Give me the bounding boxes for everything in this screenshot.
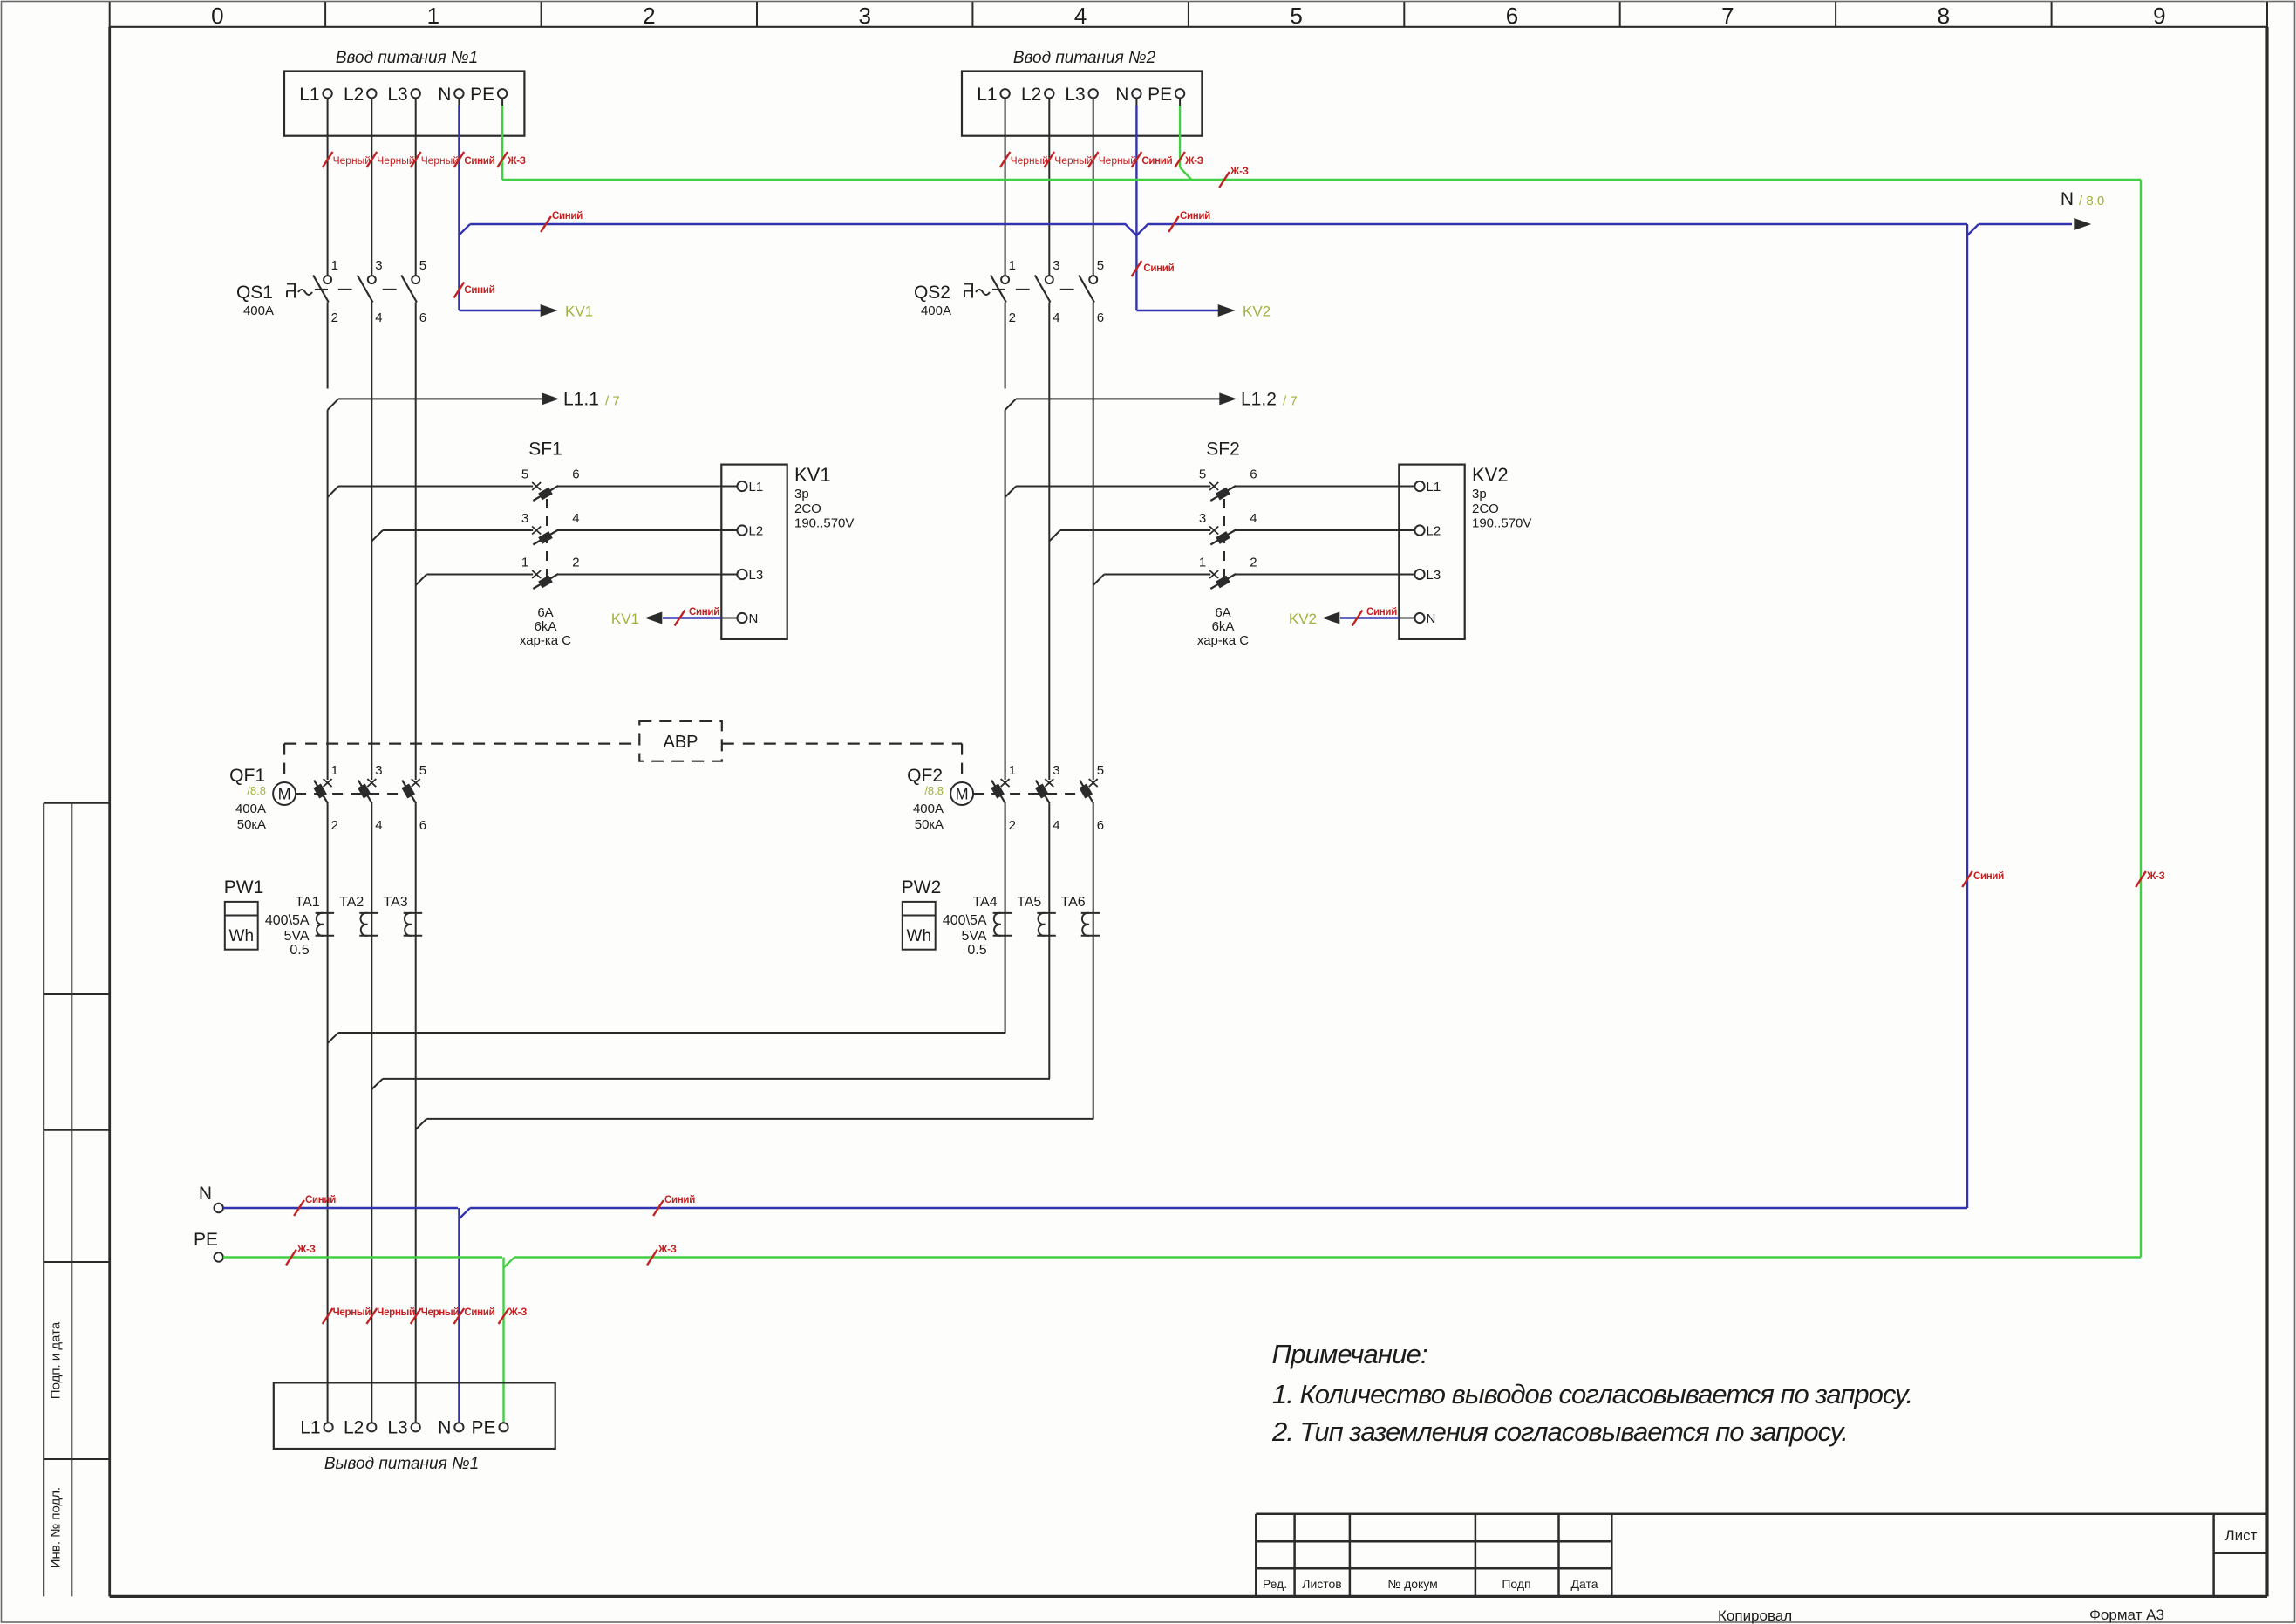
- svg-text:6: 6: [572, 467, 579, 482]
- svg-text:5: 5: [419, 258, 426, 273]
- motorized circuit breaker QF1 400A 50kA: [229, 763, 426, 833]
- svg-text:3p: 3p: [794, 487, 809, 502]
- svg-text:/ 7: / 7: [1283, 394, 1298, 409]
- svg-text:Черный: Черный: [1099, 154, 1136, 167]
- svg-text:N: N: [438, 85, 451, 105]
- svg-text:TA5: TA5: [1017, 895, 1041, 910]
- SF1 pole (pins 3/4) with feed wire from phase: [371, 511, 737, 545]
- QF2 pole 1 (pins 1/2): [991, 763, 1016, 833]
- svg-text:6: 6: [419, 818, 426, 833]
- circuit breaker SF1 6A 6kA: [328, 440, 738, 649]
- svg-text:1: 1: [1009, 763, 1016, 778]
- svg-text:Вывод питания №1: Вывод питания №1: [324, 1455, 479, 1473]
- SF2 pole (pins 3/4) with feed wire from phase: [1049, 511, 1414, 545]
- svg-text:400\5A: 400\5A: [943, 913, 987, 928]
- svg-text:3: 3: [1053, 763, 1059, 778]
- current transformer TA5: [1017, 895, 1056, 936]
- QF2 motor drive M: [950, 782, 973, 805]
- svg-text:TA2: TA2: [339, 895, 364, 910]
- svg-text:Ж-З: Ж-З: [1230, 167, 1249, 177]
- svg-text:QF1: QF1: [229, 766, 265, 786]
- bus L2 crossover (QF2 pole2 to output L2): [371, 803, 1050, 1089]
- wire phase L3 vertical (QS to QF), column 2: [1093, 303, 1094, 781]
- svg-text:Ж-З: Ж-З: [1184, 156, 1203, 167]
- svg-text:1: 1: [331, 258, 338, 273]
- svg-text:QS2: QS2: [914, 283, 950, 303]
- svg-text:3: 3: [858, 3, 870, 29]
- svg-text:Черный: Черный: [1011, 154, 1048, 167]
- SF2 pole (pins 1/2) with feed wire from phase: [1093, 556, 1415, 590]
- ATS controller АВР (dashed): [284, 721, 962, 761]
- svg-text:Синий: Синий: [464, 156, 494, 167]
- net arrow L1.1 / 7: [328, 390, 620, 411]
- svg-text:0.5: 0.5: [290, 943, 309, 958]
- svg-text:PW2: PW2: [902, 877, 942, 897]
- svg-text:QF2: QF2: [907, 766, 943, 786]
- svg-text:PE: PE: [194, 1230, 218, 1250]
- svg-text:Примечание:: Примечание:: [1272, 1339, 1428, 1369]
- right N riser (blue): [1966, 224, 1968, 1208]
- svg-text:6: 6: [1097, 818, 1104, 833]
- svg-text:PW1: PW1: [224, 877, 264, 897]
- wire PE input1 drop (green): [497, 99, 526, 181]
- svg-text:190..570V: 190..570V: [1472, 516, 1531, 531]
- terminal N (bottom left): [199, 1184, 223, 1212]
- svg-text:Черный: Черный: [377, 154, 414, 167]
- svg-text:2: 2: [331, 310, 338, 325]
- svg-text:5: 5: [419, 763, 426, 778]
- current transformer TA3: [384, 895, 423, 936]
- svg-text:Синий: Синий: [1366, 607, 1397, 618]
- svg-text:3p: 3p: [1472, 487, 1487, 502]
- svg-text:2CO: 2CO: [794, 502, 821, 516]
- svg-text:№ докум: № докум: [1387, 1577, 1438, 1591]
- svg-text:/8.8: /8.8: [247, 784, 266, 797]
- svg-text:N: N: [1115, 85, 1128, 105]
- wire phase L2 from input 2 to QS2: [1045, 99, 1093, 276]
- N bus horizontal (blue) with V-junction at N2: [470, 211, 1967, 235]
- wire phase L3 from input 1 to QS1: [411, 99, 459, 276]
- svg-text:Ж-З: Ж-З: [2146, 871, 2165, 882]
- svg-text:4: 4: [375, 818, 382, 833]
- svg-text:Синий: Синий: [1143, 263, 1174, 274]
- bottom PE bus (green): [223, 1245, 2141, 1268]
- svg-text:L1: L1: [300, 1417, 320, 1437]
- svg-text:L2: L2: [1427, 524, 1441, 539]
- wire N input1 drop (blue): [454, 99, 495, 235]
- dashed link АВР to QF2 drive: [961, 744, 963, 782]
- svg-text:5VA: 5VA: [284, 929, 310, 944]
- current transformer TA4: [972, 895, 1012, 936]
- svg-text:Ввод питания №1: Ввод питания №1: [336, 49, 478, 67]
- svg-text:Черный: Черный: [333, 1307, 371, 1318]
- svg-text:KV2: KV2: [1243, 304, 1271, 320]
- QS2 pole 3 (pins 5/6): [1079, 258, 1104, 325]
- terminal block: Вывод питания №1: [274, 1382, 555, 1473]
- wire phase L2 vertical (QS to QF), column 2: [1048, 303, 1050, 781]
- energy meter PW2 (Wh): [902, 877, 942, 950]
- svg-text:1: 1: [331, 763, 338, 778]
- svg-text:АВР: АВР: [663, 733, 698, 752]
- voltage relay KV1 3p 2CO 190..570V: [721, 464, 854, 639]
- QS1 pole 1 (pins 1/2): [313, 258, 338, 325]
- svg-text:0.5: 0.5: [967, 943, 986, 958]
- svg-text:N: N: [1427, 611, 1436, 626]
- svg-text:Формат А3: Формат А3: [2089, 1607, 2164, 1623]
- QF1 pole 1 (pins 1/2): [314, 763, 338, 833]
- svg-text:190..570V: 190..570V: [794, 516, 854, 531]
- QS1 pole 2 (pins 3/4): [358, 258, 383, 325]
- QF1 motor drive M: [273, 782, 296, 805]
- svg-text:2: 2: [331, 818, 338, 833]
- wire phase L3 from input 2 to QS2: [1088, 99, 1136, 276]
- svg-text:L3: L3: [387, 1417, 407, 1437]
- voltage relay KV2 3p 2CO 190..570V: [1399, 464, 1531, 639]
- svg-text:Инв. № подл.: Инв. № подл.: [49, 1487, 64, 1568]
- svg-text:Синий: Синий: [305, 1195, 336, 1205]
- svg-text:M: M: [278, 786, 291, 803]
- svg-text:Синий: Синий: [689, 607, 719, 618]
- svg-text:Синий: Синий: [1973, 871, 2004, 882]
- svg-text:SF1: SF1: [528, 440, 562, 460]
- svg-text:KV2: KV2: [1289, 611, 1317, 627]
- circuit breaker SF2 6A 6kA: [1005, 440, 1415, 649]
- svg-text:2CO: 2CO: [1472, 502, 1499, 516]
- right PE riser (green): [2140, 180, 2142, 1258]
- svg-text:1: 1: [427, 3, 439, 29]
- svg-text:3: 3: [521, 511, 528, 526]
- terminal PE (bottom left): [194, 1230, 223, 1262]
- svg-text:M: M: [956, 786, 969, 803]
- svg-text:Подп: Подп: [1502, 1577, 1530, 1591]
- svg-text:KV1: KV1: [611, 611, 639, 627]
- svg-text:Лист: Лист: [2225, 1527, 2258, 1544]
- colour tag Ж-З on right PE riser: [2136, 871, 2164, 887]
- svg-text:хар-ка С: хар-ка С: [520, 633, 571, 648]
- svg-text:0: 0: [211, 3, 223, 29]
- svg-text:L1: L1: [1427, 480, 1441, 495]
- svg-text:3: 3: [375, 258, 382, 273]
- svg-text:400A: 400A: [921, 304, 951, 318]
- svg-text:Черный: Черный: [421, 154, 459, 167]
- svg-text:50кА: 50кА: [915, 817, 944, 832]
- svg-text:/ 7: / 7: [605, 394, 620, 409]
- svg-text:Синий: Синий: [1141, 156, 1172, 167]
- wire PE input2 drop (green) with jog: [1175, 99, 1203, 181]
- svg-text:9: 9: [2153, 3, 2165, 29]
- svg-text:Синий: Синий: [464, 285, 494, 296]
- svg-text:400\5A: 400\5A: [265, 913, 310, 928]
- terminal block: Ввод питания №1: [284, 49, 524, 136]
- svg-text:L2: L2: [749, 524, 764, 539]
- svg-text:1: 1: [1199, 556, 1206, 570]
- current transformer TA2: [339, 895, 378, 936]
- svg-text:6kА: 6kА: [535, 619, 557, 634]
- svg-text:50кА: 50кА: [237, 817, 266, 832]
- svg-text:/ 8.0: / 8.0: [2079, 194, 2104, 208]
- svg-text:2: 2: [1009, 310, 1016, 325]
- svg-text:2: 2: [1250, 556, 1257, 570]
- svg-text:5: 5: [1199, 467, 1206, 482]
- energy meter PW1 (Wh): [224, 877, 264, 950]
- svg-text:Ж-З: Ж-З: [657, 1245, 677, 1255]
- svg-text:Листов: Листов: [1302, 1577, 1342, 1591]
- svg-text:4: 4: [375, 310, 382, 325]
- svg-text:1: 1: [1009, 258, 1016, 273]
- svg-text:N: N: [749, 611, 759, 626]
- svg-text:Ввод питания №2: Ввод питания №2: [1013, 49, 1156, 67]
- wire phase L2 from input 1 to QS1: [366, 99, 414, 276]
- bus L1 crossover (QF2 pole1 to output L1): [328, 803, 1006, 1043]
- disconnect switch QS1 400A: [236, 258, 426, 325]
- svg-text:L2: L2: [344, 1417, 364, 1437]
- colour tag Синий on right N riser: [1962, 871, 2004, 887]
- wire N input2 drop (blue): [1132, 99, 1175, 311]
- svg-text:4: 4: [1053, 310, 1059, 325]
- net arrow N / 8.0: [1967, 189, 2104, 235]
- svg-text:3: 3: [375, 763, 382, 778]
- svg-text:PE: PE: [471, 1417, 495, 1437]
- svg-text:L3: L3: [749, 568, 764, 583]
- SF1 pole (pins 1/2) with feed wire from phase: [416, 556, 738, 590]
- wire phase L1 from input 2 to QS2: [1000, 99, 1048, 276]
- notes text Примечание: [1271, 1339, 1912, 1447]
- wire N drop to output block (blue): [454, 1208, 495, 1423]
- svg-text:2. Тип заземления согласовывае: 2. Тип заземления согласовывается по зап…: [1271, 1416, 1848, 1447]
- svg-text:5: 5: [1290, 3, 1302, 29]
- svg-text:Wh: Wh: [907, 927, 932, 945]
- QF2 pole 3 (pins 5/6): [1080, 763, 1104, 833]
- svg-text:1: 1: [521, 556, 528, 570]
- svg-text:6А: 6А: [537, 605, 553, 620]
- wire phase L2 vertical (QS to QF), column 1: [371, 303, 372, 781]
- svg-text:Wh: Wh: [229, 927, 255, 945]
- svg-text:Ж-З: Ж-З: [508, 1307, 528, 1318]
- svg-text:2: 2: [1009, 818, 1016, 833]
- TA4..TA6 ratings 400\5A 5VA 0.5: [943, 913, 987, 958]
- svg-text:QS1: QS1: [236, 283, 273, 303]
- svg-text:2: 2: [572, 556, 579, 570]
- SF1 pole (pins 5/6) with feed wire from phase: [328, 467, 738, 502]
- svg-text:5: 5: [1097, 258, 1104, 273]
- svg-text:5: 5: [1097, 763, 1104, 778]
- dashed link АВР to QF1 drive: [283, 744, 285, 782]
- svg-text:6kА: 6kА: [1212, 619, 1235, 634]
- wire phase L2 vertical (QF1 to output block): [366, 803, 415, 1423]
- svg-text:L2: L2: [344, 85, 364, 105]
- svg-text:TA1: TA1: [295, 895, 319, 910]
- QF1 pole 3 (pins 5/6): [402, 763, 426, 833]
- svg-text:Синий: Синий: [464, 1307, 494, 1318]
- svg-text:3: 3: [1053, 258, 1059, 273]
- svg-text:5: 5: [521, 467, 528, 482]
- svg-text:TA4: TA4: [972, 895, 997, 910]
- svg-text:1. Количество выводов согласов: 1. Количество выводов согласовывается по…: [1272, 1379, 1912, 1409]
- svg-text:6: 6: [1250, 467, 1257, 482]
- terminal block: Ввод питания №2: [962, 49, 1202, 136]
- svg-text:N: N: [2061, 189, 2074, 209]
- wire N2 to KV2 arrow: [1136, 304, 1271, 320]
- svg-text:L3: L3: [1427, 568, 1441, 583]
- wire N1 vertical to KV1 arrow: [454, 235, 594, 320]
- wire phase L1 vertical (QS to QF), column 1: [327, 303, 329, 781]
- svg-text:Черный: Черный: [1054, 154, 1092, 167]
- svg-text:L3: L3: [387, 85, 407, 105]
- svg-text:L1.2: L1.2: [1241, 390, 1277, 410]
- QS2 pole 1 (pins 1/2): [991, 258, 1016, 325]
- svg-text:TA3: TA3: [384, 895, 408, 910]
- svg-text:7: 7: [1721, 3, 1734, 29]
- junction N1 to N bus (jog): [459, 224, 470, 235]
- QS1 pole 3 (pins 5/6): [401, 258, 426, 325]
- svg-text:6: 6: [1097, 310, 1104, 325]
- svg-text:KV2: KV2: [1472, 464, 1509, 486]
- svg-text:3: 3: [1199, 511, 1206, 526]
- wire phase L3 vertical (QF1 to output block): [411, 803, 460, 1423]
- TA1..TA3 ratings 400\5A 5VA 0.5: [265, 913, 310, 958]
- SF2 pole (pins 5/6) with feed wire from phase: [1005, 467, 1415, 502]
- svg-text:400A: 400A: [235, 802, 266, 816]
- svg-text:L3: L3: [1065, 85, 1085, 105]
- svg-text:SF2: SF2: [1206, 440, 1240, 460]
- bottom N bus (blue): [223, 1195, 1967, 1219]
- wire PE drop to output block (green): [499, 1258, 528, 1423]
- net arrow L1.2 / 7: [1005, 390, 1298, 411]
- svg-text:4: 4: [1250, 511, 1257, 526]
- wire phase L3 vertical (QS to QF), column 1: [415, 303, 417, 781]
- svg-text:6: 6: [1506, 3, 1518, 29]
- QF1 pole 2 (pins 3/4): [358, 763, 383, 833]
- svg-text:4: 4: [1074, 3, 1087, 29]
- svg-text:PE: PE: [470, 85, 494, 105]
- svg-text:Черный: Черный: [377, 1307, 415, 1318]
- svg-text:2: 2: [643, 3, 655, 29]
- svg-text:400A: 400A: [913, 802, 944, 816]
- wire N (blue) from KV2 to net arrow KV2: [1289, 607, 1399, 627]
- svg-text:KV1: KV1: [565, 304, 593, 320]
- svg-text:Ж-З: Ж-З: [507, 156, 526, 167]
- bus L3 crossover (QF2 pole3 to output L3): [416, 803, 1094, 1129]
- disconnect switch QS2 400A: [914, 258, 1104, 325]
- QS2 pole 2 (pins 3/4): [1035, 258, 1060, 325]
- svg-text:PE: PE: [1148, 85, 1172, 105]
- svg-text:Копировал: Копировал: [1718, 1607, 1792, 1624]
- svg-text:KV1: KV1: [794, 464, 831, 486]
- svg-text:400A: 400A: [243, 304, 274, 318]
- svg-text:4: 4: [1053, 818, 1059, 833]
- svg-text:Синий: Синий: [664, 1195, 695, 1205]
- svg-text:L1: L1: [749, 480, 764, 495]
- svg-text:L2: L2: [1021, 85, 1041, 105]
- svg-text:L1.1: L1.1: [563, 390, 599, 410]
- svg-text:Черный: Черный: [421, 1307, 460, 1318]
- svg-text:L1: L1: [299, 85, 319, 105]
- svg-text:Синий: Синий: [552, 211, 583, 222]
- svg-text:L1: L1: [977, 85, 997, 105]
- svg-text:/8.8: /8.8: [924, 784, 944, 797]
- current transformer TA6: [1061, 895, 1100, 936]
- svg-text:Синий: Синий: [1180, 211, 1210, 222]
- QF2 pole 2 (pins 3/4): [1036, 763, 1060, 833]
- svg-text:Ж-З: Ж-З: [296, 1245, 316, 1255]
- svg-text:6А: 6А: [1215, 605, 1230, 620]
- svg-text:8: 8: [1938, 3, 1950, 29]
- svg-text:4: 4: [572, 511, 579, 526]
- svg-text:Ред.: Ред.: [1263, 1577, 1287, 1591]
- svg-text:TA6: TA6: [1061, 895, 1086, 910]
- wire N (blue) from KV1 to net arrow KV1: [611, 607, 721, 627]
- svg-text:6: 6: [419, 310, 426, 325]
- svg-text:хар-ка С: хар-ка С: [1197, 633, 1249, 648]
- wire phase L1 from input 1 to QS1: [323, 99, 371, 276]
- svg-text:Дата: Дата: [1570, 1577, 1598, 1591]
- svg-text:N: N: [199, 1184, 212, 1204]
- svg-text:N: N: [438, 1417, 451, 1437]
- svg-text:5VA: 5VA: [962, 929, 987, 944]
- wire phase L1 vertical (QF1 to output block): [323, 803, 371, 1423]
- svg-text:Подп. и дата: Подп. и дата: [49, 1321, 64, 1399]
- PE bus horizontal (green): [502, 167, 2141, 188]
- wire phase L1 vertical (QS to QF), column 2: [1005, 303, 1006, 781]
- motorized circuit breaker QF2 400A 50kA: [907, 763, 1104, 833]
- svg-text:Черный: Черный: [333, 154, 371, 167]
- current transformer TA1: [295, 895, 334, 936]
